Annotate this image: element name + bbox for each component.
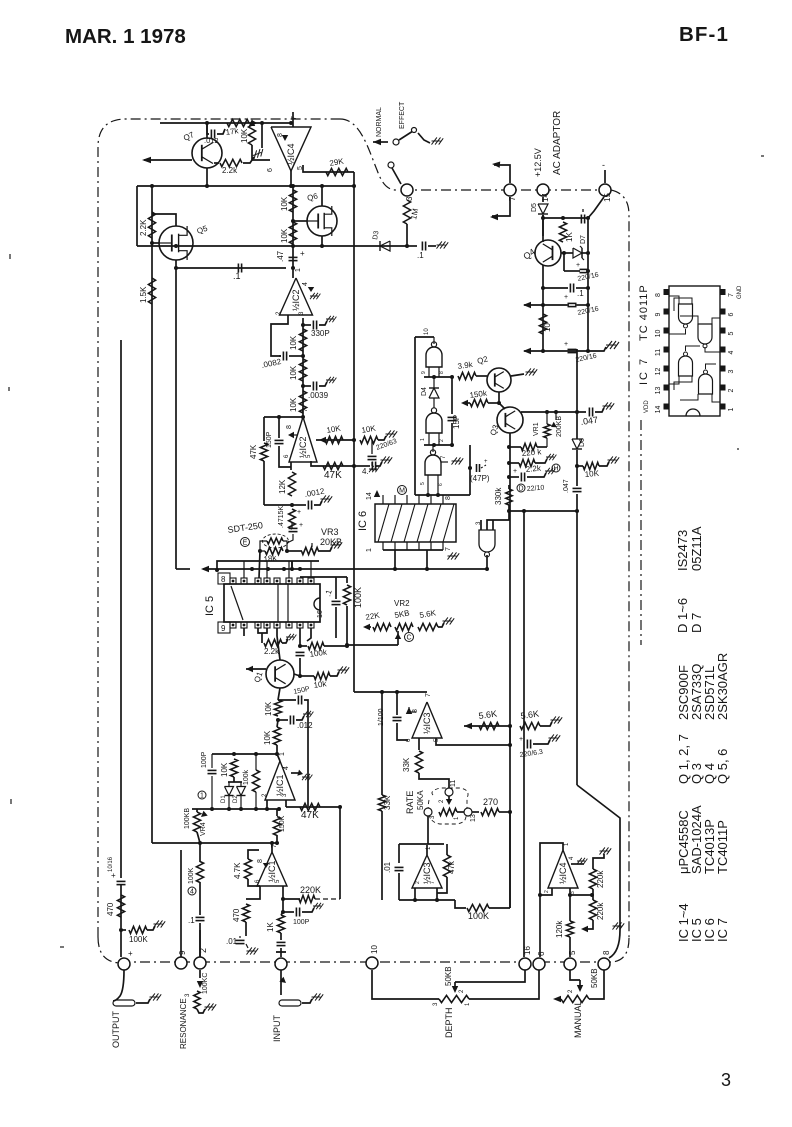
svg-text:2: 2 [728,388,735,392]
svg-text:4: 4 [728,350,735,354]
svg-text:4.: 4. [362,467,369,476]
svg-text:1: 1 [295,268,302,272]
svg-text:+: + [299,522,303,529]
svg-text:OUTPUT: OUTPUT [111,1011,121,1049]
svg-text:MANUAL: MANUAL [573,1000,583,1038]
svg-text:EFFECT: EFFECT [399,101,406,129]
svg-text:50KA: 50KA [416,790,425,810]
svg-text:220k: 220k [596,902,605,920]
svg-text:1: 1 [366,548,373,552]
svg-text:IC 7: IC 7 [638,357,650,385]
svg-text:13: 13 [470,814,477,822]
svg-text:½IC1: ½IC1 [275,774,285,796]
svg-text:E: E [243,540,248,547]
svg-text:5: 5 [728,331,735,335]
svg-text:100P: 100P [201,751,208,768]
svg-text:D2: D2 [233,795,239,803]
svg-text:15P: 15P [452,415,461,429]
svg-text:13: 13 [655,387,662,395]
svg-text:120k: 120k [555,920,564,938]
svg-text:100K: 100K [129,935,148,944]
svg-text:H: H [553,466,558,473]
svg-text:10K: 10K [220,762,229,777]
svg-text:47K: 47K [301,810,319,821]
svg-text:D4: D4 [421,387,428,396]
svg-text:D7: D7 [580,235,587,244]
svg-text:TC4011P: TC4011P [715,820,730,874]
svg-text:D: D [518,486,523,493]
svg-text:100P: 100P [293,919,310,926]
svg-text:10K: 10K [289,335,298,350]
svg-text:D6: D6 [579,438,586,447]
svg-text:330k: 330k [494,487,503,505]
svg-text:-: - [602,160,605,170]
svg-text:IC 6: IC 6 [357,511,369,531]
svg-text:VR4: VR4 [200,822,207,836]
svg-text:+: + [564,294,568,301]
svg-text:7: 7 [302,408,309,412]
svg-text:200KB: 200KB [556,416,563,437]
svg-text:2: 2 [415,881,421,884]
svg-text:4: 4 [283,766,290,770]
svg-text:10/16: 10/16 [108,856,114,872]
svg-text:1: 1 [420,438,426,441]
svg-text:BF-1: BF-1 [679,23,729,46]
svg-text:D1: D1 [221,795,227,803]
svg-text:VR3: VR3 [321,527,339,537]
svg-text:.47: .47 [276,250,285,262]
svg-text:12: 12 [655,368,662,376]
svg-text:7: 7 [425,693,432,697]
svg-text:4.7K: 4.7K [233,862,242,879]
svg-text:18k: 18k [263,553,278,564]
svg-text:VR1: VR1 [533,422,540,436]
svg-text:M: M [399,488,405,495]
svg-text:1: 1 [728,407,735,411]
svg-text:(47P): (47P) [470,474,490,483]
svg-text:100K: 100K [468,911,489,921]
svg-text:1K: 1K [565,232,574,242]
svg-text:8: 8 [655,293,662,297]
svg-text:+: + [300,249,305,258]
svg-text:NORMAL: NORMAL [376,107,383,137]
svg-text:8: 8 [602,950,611,955]
svg-text:½IC4: ½IC4 [286,143,296,165]
svg-text:10k: 10k [313,679,328,690]
svg-text:6: 6 [728,312,735,316]
svg-text:+: + [513,468,517,475]
svg-text:10K: 10K [289,397,298,412]
svg-text:2.2k: 2.2k [222,166,238,175]
svg-text:100K: 100K [353,587,363,608]
svg-text:47K: 47K [249,444,258,459]
svg-text:16: 16 [317,610,324,618]
svg-text:IC 7: IC 7 [715,918,730,942]
svg-text:470: 470 [106,902,115,916]
svg-text:TC 4011P: TC 4011P [638,284,650,341]
svg-text:IS2473: IS2473 [675,530,690,571]
svg-text:.01: .01 [226,937,238,946]
svg-text:150K: 150K [279,815,286,832]
svg-text:8: 8 [221,575,226,584]
svg-text:100K: 100K [188,867,195,884]
svg-text:10: 10 [543,323,552,332]
svg-text:1K: 1K [266,922,275,932]
svg-text:14: 14 [366,492,373,500]
svg-text:47K: 47K [324,470,342,481]
svg-text:½IC3: ½IC3 [422,712,432,734]
svg-text:10K: 10K [240,128,249,143]
svg-text:470: 470 [232,908,241,922]
svg-text:6: 6 [537,951,546,956]
svg-text:D 7: D 7 [689,613,704,633]
svg-text:100KC: 100KC [202,973,209,994]
svg-text:50KB: 50KB [444,966,453,986]
svg-text:270: 270 [483,797,498,807]
svg-text:.1: .1 [233,271,241,281]
svg-text:2: 2 [439,439,445,442]
svg-text:6: 6 [438,483,444,486]
svg-text:Q 5, 6: Q 5, 6 [715,749,730,784]
svg-text:10K: 10K [263,730,272,745]
svg-text:50KB: 50KB [590,968,599,988]
svg-text:3: 3 [721,1070,731,1090]
svg-text:33K: 33K [402,757,411,772]
svg-text:+12.5V: +12.5V [533,148,543,177]
svg-text:DEPTH: DEPTH [444,1007,454,1038]
svg-text:220K: 220K [300,885,321,895]
svg-text:4: 4 [190,889,194,896]
svg-text:10K: 10K [584,469,600,479]
svg-text:.047: .047 [563,479,570,493]
svg-text:+: + [519,736,523,743]
svg-text:7: 7 [728,293,735,297]
svg-text:11: 11 [450,780,457,787]
svg-text:10K: 10K [280,196,289,211]
svg-text:RATE: RATE [405,791,415,814]
svg-text:100k: 100k [243,769,250,785]
svg-text:MAR. 1 1978: MAR. 1 1978 [65,25,186,48]
svg-text:½IC4: ½IC4 [558,862,568,884]
svg-text:7: 7 [430,881,436,884]
svg-text:D 1~6: D 1~6 [675,598,690,633]
svg-text:14: 14 [655,406,662,414]
svg-text:9: 9 [178,950,187,955]
svg-text:10K: 10K [280,228,289,243]
svg-text:220k: 220k [596,870,605,888]
svg-text:7: 7 [445,547,452,551]
svg-text:17k: 17k [225,126,240,137]
svg-text:1: 1 [279,752,286,756]
svg-text:+: + [576,262,580,269]
svg-text:8: 8 [445,496,452,500]
svg-text:+: + [128,949,133,958]
svg-text:+: + [484,459,488,465]
svg-text:12K: 12K [278,479,287,494]
svg-text:.0039: .0039 [308,391,329,400]
svg-text:11: 11 [655,349,662,356]
svg-text:9: 9 [421,371,427,374]
svg-text:2.2K: 2.2K [139,219,148,236]
svg-text:2: 2 [544,890,550,893]
svg-text:05Z11A: 05Z11A [689,526,704,571]
svg-text:3: 3 [405,196,414,201]
svg-text:.012: .012 [297,721,313,730]
svg-text:+: + [297,509,301,516]
svg-text:.1: .1 [188,916,195,925]
svg-text:1: 1 [200,793,204,800]
svg-text:½IC3: ½IC3 [422,862,432,884]
svg-text:.1: .1 [577,289,584,298]
svg-text:10: 10 [424,328,430,335]
svg-text:D5: D5 [531,203,538,212]
svg-text:100KB: 100KB [184,808,191,829]
svg-text:+: + [564,341,568,348]
svg-text:10: 10 [370,945,379,954]
svg-text:AC ADAPTOR: AC ADAPTOR [552,111,563,175]
svg-text:GND: GND [737,285,743,299]
svg-text:.1: .1 [417,251,424,260]
svg-text:C: C [406,635,411,642]
svg-text:10: 10 [655,330,662,338]
svg-text:9: 9 [655,312,662,316]
svg-text:47k: 47k [447,860,456,874]
svg-text:.4715K: .4715K [278,505,285,528]
svg-text:.01: .01 [383,861,392,873]
svg-text:2.2k: 2.2k [525,464,542,474]
svg-text:9: 9 [221,624,226,633]
svg-text:7: 7 [291,116,298,120]
svg-text:IC 5: IC 5 [204,596,216,616]
svg-text:VR2: VR2 [394,599,410,608]
svg-text:VDD: VDD [644,400,650,413]
svg-text:INPUT: INPUT [272,1014,282,1042]
svg-text:3: 3 [728,369,735,373]
svg-text:5: 5 [420,482,426,485]
svg-text:8: 8 [257,859,264,863]
svg-text:10K: 10K [289,365,298,380]
svg-text:8: 8 [286,425,293,429]
svg-text:½IC2: ½IC2 [291,289,301,311]
svg-text:3: 3 [570,891,576,894]
svg-text:8: 8 [439,371,445,374]
svg-text:220 k: 220 k [521,447,542,458]
svg-text:330P: 330P [311,329,330,338]
svg-text:4: 4 [302,282,309,286]
svg-text:1.5K: 1.5K [139,286,148,303]
svg-text:33K: 33K [383,795,392,810]
svg-text:10K: 10K [264,701,273,716]
svg-text:RESONANCE: RESONANCE [179,998,188,1049]
svg-text:6: 6 [267,168,274,172]
svg-text:2SK30AGR: 2SK30AGR [715,653,730,720]
